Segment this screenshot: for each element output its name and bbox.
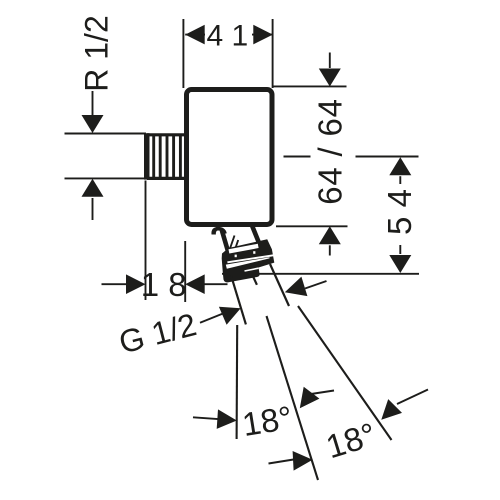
outlet ball curl <box>211 227 226 235</box>
nipple bottom edge <box>147 177 184 180</box>
wire outlet stub s3 <box>270 264 289 306</box>
wire swivel line vertical <box>236 325 239 439</box>
wire dim line 41 <box>185 34 273 36</box>
arrow R1/2 bottom <box>82 179 104 197</box>
wire A2 tail <box>311 391 334 395</box>
wire A5 tail <box>305 281 327 289</box>
wire swivel line middle <box>267 316 319 480</box>
nipple thread cap <box>144 133 150 179</box>
arrow 64/64 bottom <box>319 226 341 244</box>
outlet nut white wedge <box>226 257 270 269</box>
label 41 <box>205 21 252 48</box>
wire 54 top tail <box>399 176 401 184</box>
svg-text:4 1: 4 1 <box>206 20 248 53</box>
wire R1/2 dim line upper tail <box>92 91 94 115</box>
wire 18 right tail <box>204 283 227 285</box>
wire bottom ref line <box>222 273 419 275</box>
nipple thread line 1 <box>152 134 155 181</box>
wire A4 tail <box>397 390 428 405</box>
wire swivel line right <box>298 306 392 440</box>
outlet A/B white slot <box>229 246 258 252</box>
arrow 54 top <box>389 157 411 175</box>
arrow 41 right <box>253 25 272 45</box>
arrow A3 at middle line lower <box>293 451 313 471</box>
svg-text:R 1/2: R 1/2 <box>79 15 115 91</box>
wire 18 ext left <box>145 181 147 301</box>
svg-text:18°: 18° <box>240 399 295 443</box>
wire R1/2 dim line lower tail <box>92 198 94 220</box>
outlet nut silhouette <box>222 239 275 282</box>
arrow A2 at middle line upper <box>300 387 320 409</box>
wire 64/64 top tail <box>329 53 331 69</box>
nipple thread line 2 <box>159 134 162 181</box>
wire A1 tail <box>193 417 218 419</box>
nipple thread line 4 <box>172 134 175 181</box>
arrow 18 left <box>126 274 146 294</box>
wire 64/64 top ref <box>272 85 347 87</box>
svg-text:1 8: 1 8 <box>141 266 187 303</box>
wire 64/64 bottom tail <box>329 245 331 255</box>
outlet nut white tick 1 <box>235 255 237 258</box>
outlet nut white stripe 1 <box>227 255 274 262</box>
arrow R1/2 top <box>82 115 104 133</box>
wire outlet stub s2 <box>253 276 257 285</box>
arrow A4 at right line <box>381 399 402 420</box>
outlet neck inner line 1 <box>230 236 235 249</box>
wire 64/64 bottom ref <box>276 225 348 227</box>
wire R1/2 ref line bottom <box>65 177 147 179</box>
svg-text:5 4: 5 4 <box>381 189 418 235</box>
arrow A5 at stub s3 <box>285 277 308 297</box>
wire ext line 41 left <box>182 19 184 88</box>
body wall plate <box>187 90 273 225</box>
arrow A1 at vertical line <box>217 409 237 429</box>
wire G1/2 leader <box>200 314 223 323</box>
arrow 18 right <box>185 274 205 294</box>
nipple thread line 3 <box>166 134 169 181</box>
label 18 <box>148 270 181 298</box>
svg-text:64 / 64: 64 / 64 <box>311 98 348 205</box>
wire center dash right / 54 top ref <box>356 156 419 158</box>
nipple top edge <box>147 133 184 136</box>
wire ext line 41 right <box>272 19 274 88</box>
wire 54 bottom tail <box>399 245 401 254</box>
wire A3 tail <box>269 460 294 464</box>
outlet neck right edge <box>252 226 260 247</box>
wire 18 left tail <box>102 283 127 285</box>
wire center dash left <box>284 156 311 158</box>
arrow 41 left <box>185 25 205 45</box>
wire outlet axis stub s1 <box>231 275 246 324</box>
wire R1/2 ref line top <box>65 133 147 135</box>
arrow 64/64 top <box>319 69 341 87</box>
outlet nut white tick 2 <box>253 251 255 254</box>
nipple thread line 5 <box>179 134 182 181</box>
outlet neck inner line 2 <box>235 240 238 250</box>
outlet B/C white sep <box>245 268 259 271</box>
arrow 54 bottom <box>389 255 411 273</box>
outlet neck left edge <box>222 231 229 255</box>
wire 18 ext right <box>184 241 186 302</box>
arrow G1/2 <box>219 307 241 325</box>
